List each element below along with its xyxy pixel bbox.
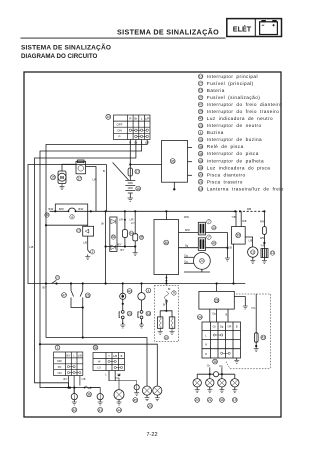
lamp 45 xyxy=(109,371,137,385)
wire block1 right xyxy=(206,231,228,233)
connector block 1 xyxy=(198,222,205,235)
lamp 20 label xyxy=(148,403,153,408)
legend item 36 Relé de pisca xyxy=(198,144,243,149)
flasher lamp 46 xyxy=(221,374,223,378)
connector ring on bus4 xyxy=(213,372,218,377)
comp 13 label xyxy=(270,251,274,255)
svg-text:Interruptor de buzina: Interruptor de buzina xyxy=(207,137,262,142)
neutral lamp label 40 xyxy=(127,289,132,294)
battery 16 xyxy=(125,181,135,194)
svg-text:36: 36 xyxy=(171,159,175,163)
svg-text:17: 17 xyxy=(77,177,81,181)
wire headlight feeds xyxy=(184,256,194,258)
svg-text:Pisca dianteiro: Pisca dianteiro xyxy=(207,172,246,177)
wire second run to rear xyxy=(40,344,157,386)
flasher lamp 21 xyxy=(209,374,211,378)
svg-text:Interruptor do freio traseiro: Interruptor do freio traseiro xyxy=(207,109,279,114)
svg-text:SISTEMA DE SINALIZAÇÃO: SISTEMA DE SINALIZAÇÃO xyxy=(117,27,219,36)
wire neutral lamp down xyxy=(122,299,124,310)
ground lamp 12 xyxy=(250,261,255,264)
svg-text:40: 40 xyxy=(212,226,216,230)
svg-text:23: 23 xyxy=(199,124,203,128)
ELET tab box xyxy=(227,19,282,37)
ground tail left xyxy=(158,328,163,334)
ground lamp 20b xyxy=(155,398,160,401)
svg-text:39: 39 xyxy=(236,234,240,238)
legend item 20 Pisca dianteiro xyxy=(198,172,245,177)
legend item 35 Luz indicadora do pisca xyxy=(198,165,270,170)
svg-text:Fusível (sinalização): Fusível (sinalização) xyxy=(207,95,260,100)
fuse sinalizacao right xyxy=(263,211,265,226)
turn indicator label 35 xyxy=(111,235,115,239)
ground tail right xyxy=(170,328,175,334)
svg-text:43: 43 xyxy=(199,159,203,163)
svg-text:R/B: R/B xyxy=(247,208,252,211)
svg-text:21: 21 xyxy=(208,398,212,402)
wire under headlight xyxy=(184,271,210,273)
ground lamp 42 xyxy=(72,402,77,405)
wire motor to relay xyxy=(62,164,76,171)
svg-text:40: 40 xyxy=(128,289,132,293)
svg-text:23: 23 xyxy=(77,229,81,233)
svg-text:10: 10 xyxy=(106,115,110,119)
switch 36 on bus3 xyxy=(85,386,91,389)
TABLES xyxy=(45,345,125,396)
legend item 19 Lanterna traseira/luz de freio xyxy=(198,186,284,191)
horn label 4 xyxy=(70,215,74,219)
lamp 42 xyxy=(73,388,75,394)
node row y246.5 xyxy=(106,246,136,248)
flasher lamp 19 xyxy=(234,374,236,378)
wires below dimmer table xyxy=(108,371,110,382)
dimmer switch table xyxy=(93,353,125,371)
connector block 1 label xyxy=(207,220,211,224)
starter motor M xyxy=(58,171,66,184)
ground lamp 45 xyxy=(134,393,139,396)
horn lamp label 4 xyxy=(146,288,151,293)
BOTTOMLAMPS xyxy=(71,371,162,413)
main switch column headers xyxy=(117,116,151,138)
svg-text:13: 13 xyxy=(271,251,275,255)
switch 36 label xyxy=(87,392,92,397)
svg-text:27: 27 xyxy=(56,276,60,280)
svg-text:Interruptor de palheta: Interruptor de palheta xyxy=(207,158,264,163)
svg-text:R/W: R/W xyxy=(260,221,266,224)
ground lamp 41 xyxy=(98,402,103,405)
battery icon in tab xyxy=(260,20,278,35)
svg-text:23: 23 xyxy=(128,312,132,316)
fuse 27 main fuse xyxy=(128,168,132,176)
wire tail junction xyxy=(165,300,167,311)
svg-text:Luz indicadora do pisca: Luz indicadora do pisca xyxy=(207,165,271,170)
wire relay to L/R drop xyxy=(86,167,97,212)
lamp 44 headlight low xyxy=(115,371,119,390)
node indicator bottom xyxy=(105,245,107,247)
svg-text:L/B: L/B xyxy=(30,245,34,249)
svg-text:Y/G: Y/G xyxy=(251,307,255,310)
svg-text:36: 36 xyxy=(199,145,203,149)
svg-text:7-22: 7-22 xyxy=(146,432,157,438)
svg-text:Fusível (principal): Fusível (principal) xyxy=(207,81,254,86)
ground neutral branch xyxy=(85,257,90,260)
svg-text:B/W: B/W xyxy=(49,208,54,211)
svg-text:41: 41 xyxy=(98,408,102,412)
wire dashed stub to table xyxy=(226,362,230,369)
ground right of headlight xyxy=(225,258,230,261)
svg-text:42: 42 xyxy=(72,408,76,412)
light switch table xyxy=(54,352,83,376)
wire R junction to unit box xyxy=(130,164,161,166)
wire dashed bus segment xyxy=(235,210,264,212)
main switch table grid xyxy=(114,115,151,140)
svg-text:Interruptor de neutro: Interruptor de neutro xyxy=(207,123,262,128)
front brake switch 47 xyxy=(70,284,72,291)
svg-text:40: 40 xyxy=(212,241,216,245)
node bus dots xyxy=(54,210,265,212)
svg-text:12: 12 xyxy=(251,250,255,254)
svg-text:L/Y: L/Y xyxy=(131,222,135,225)
main switch 10 label xyxy=(106,114,111,119)
light switch contacts xyxy=(67,366,81,374)
starter motor label xyxy=(51,175,56,180)
lamp 20 right front flasher xyxy=(153,386,162,395)
svg-text:33: 33 xyxy=(147,312,151,316)
svg-text:44: 44 xyxy=(117,408,121,412)
legend item 34 Interruptor do pisca xyxy=(198,151,258,156)
pilot device 35b xyxy=(134,211,136,234)
legend item 23 Interruptor de neutro xyxy=(198,123,261,128)
svg-text:B/Y: B/Y xyxy=(121,249,125,252)
svg-text:B/Y: B/Y xyxy=(66,354,70,357)
wire Br branch down xyxy=(105,211,107,283)
tail switch label xyxy=(172,291,176,295)
diode up xyxy=(111,219,116,224)
wire color labels under table xyxy=(129,141,149,145)
svg-text:Br: Br xyxy=(134,116,137,120)
wires unit 28 to table xyxy=(209,309,211,322)
svg-text:Luz indicadora de neutro: Luz indicadora de neutro xyxy=(207,116,273,121)
svg-text:2: 2 xyxy=(92,250,94,254)
svg-text:27: 27 xyxy=(135,170,139,174)
svg-text:SISTEMA DE SINALIZAÇÃO: SISTEMA DE SINALIZAÇÃO xyxy=(21,43,111,52)
dimmer contacts xyxy=(108,360,123,368)
switch 2 contact xyxy=(87,249,89,251)
flasher unit 34 xyxy=(124,211,126,229)
svg-text:19: 19 xyxy=(199,187,203,191)
wire comp 13 ground xyxy=(263,258,265,261)
svg-text:L/R: L/R xyxy=(93,178,97,182)
svg-text:ELÉT: ELÉT xyxy=(233,24,252,33)
front brake switch label xyxy=(62,293,67,298)
unit box B relay xyxy=(154,220,179,275)
turn switch 34 label xyxy=(197,315,202,320)
main switch P row contacts xyxy=(135,135,149,137)
svg-text:4: 4 xyxy=(147,289,149,293)
svg-text:Buzina: Buzina xyxy=(207,130,224,135)
starter relay 17 xyxy=(76,161,86,174)
wire B to far left bend xyxy=(28,165,107,284)
horn feed lamp xyxy=(141,284,143,293)
svg-text:47: 47 xyxy=(62,293,66,297)
svg-text:4: 4 xyxy=(200,131,202,135)
wire box 39 top feeds xyxy=(235,211,237,226)
POWER xyxy=(51,141,192,212)
svg-text:B: B xyxy=(103,169,105,173)
fuse 27 label xyxy=(135,169,140,174)
svg-text:ON: ON xyxy=(58,372,62,375)
wire box 39 bottom to bus2 xyxy=(233,244,235,283)
turn switch unit 28 xyxy=(199,291,234,309)
svg-text:27: 27 xyxy=(199,82,203,86)
connector label bus start xyxy=(45,213,49,217)
switch 2 label xyxy=(90,250,94,254)
PAGENUM xyxy=(146,432,157,438)
svg-text:L/B: L/B xyxy=(113,354,117,358)
svg-text:35: 35 xyxy=(140,236,144,240)
svg-text:33: 33 xyxy=(199,138,203,142)
fuse 43 xyxy=(254,333,258,342)
unit box A label xyxy=(170,159,175,164)
svg-text:L/B: L/B xyxy=(83,242,87,245)
LEGEND xyxy=(198,74,284,191)
svg-text:Br: Br xyxy=(168,288,171,291)
tail filament left xyxy=(157,317,163,328)
svg-text:Interruptor do freio dianteiro: Interruptor do freio dianteiro xyxy=(207,102,282,107)
svg-text:OFF: OFF xyxy=(117,122,123,126)
wire B vertical xyxy=(106,165,108,212)
svg-text:M: M xyxy=(60,175,64,180)
horn 4 xyxy=(69,208,76,211)
turn signal switch table 38 xyxy=(202,322,241,358)
wire bus4 xyxy=(197,373,213,375)
svg-text:15: 15 xyxy=(51,176,55,180)
svg-text:10: 10 xyxy=(199,75,203,79)
svg-text:B/W: B/W xyxy=(185,229,190,232)
INDICATORS xyxy=(102,211,144,283)
SWITCHTABLE xyxy=(106,114,151,144)
svg-text:35: 35 xyxy=(112,235,116,239)
unit box A xyxy=(162,141,188,183)
wire neutral box down xyxy=(87,236,89,248)
legend item 21 Pisca traseiro xyxy=(198,179,243,184)
rear brake switch label xyxy=(85,293,90,298)
meter lamp 12 xyxy=(248,247,258,257)
turn switch unit label xyxy=(214,298,219,303)
lamp 44 label xyxy=(117,408,122,413)
svg-text:20: 20 xyxy=(199,173,203,177)
svg-text:21: 21 xyxy=(199,180,203,184)
svg-text:B/W: B/W xyxy=(59,208,64,211)
fuse 43 label xyxy=(261,335,266,340)
svg-text:Interruptor principal: Interruptor principal xyxy=(207,74,258,79)
wire horn lamp down xyxy=(141,300,143,311)
lamp 41 label xyxy=(98,407,103,412)
wire R column down xyxy=(129,140,131,169)
svg-text:34: 34 xyxy=(199,152,203,156)
svg-text:B/W: B/W xyxy=(79,208,84,211)
svg-text:LO: LO xyxy=(97,366,100,370)
wire table col B to ground xyxy=(236,358,238,360)
legend item 37 Fusível (sinalização) xyxy=(198,95,260,100)
svg-text:B/Y: B/Y xyxy=(118,244,122,247)
horn switch 33 xyxy=(140,311,143,314)
LEFTWIRES xyxy=(28,140,162,388)
svg-text:7: 7 xyxy=(208,220,210,224)
svg-text:B/Y: B/Y xyxy=(63,378,67,381)
ground battery xyxy=(128,198,134,201)
svg-text:24: 24 xyxy=(200,259,204,263)
wire fuse 43 feed xyxy=(255,294,257,333)
ground neutral switch xyxy=(120,323,125,329)
svg-text:B: B xyxy=(121,354,123,358)
svg-text:Bateria: Bateria xyxy=(207,88,225,93)
svg-text:35: 35 xyxy=(199,166,203,170)
svg-text:28: 28 xyxy=(215,299,219,303)
wire L column to left bend xyxy=(40,140,142,388)
node bus2 dots xyxy=(45,282,218,284)
wire bus3 to lamp41 xyxy=(91,388,100,394)
svg-text:Y/R: Y/R xyxy=(261,245,265,248)
legend item 10 Interruptor principal xyxy=(198,74,258,79)
legend item 26 Interruptor do freio traseiro xyxy=(198,109,279,114)
wire box B pins right xyxy=(179,231,199,233)
svg-text:43: 43 xyxy=(261,336,265,340)
svg-text:DIAGRAMA DO CIRCUITO: DIAGRAMA DO CIRCUITO xyxy=(21,53,97,60)
wire main earth bus xyxy=(50,210,69,212)
svg-text:L/B: L/B xyxy=(228,247,232,250)
wire secondary bus xyxy=(46,283,246,285)
flasher lamp 20r xyxy=(196,374,198,378)
svg-text:7: 7 xyxy=(208,235,210,239)
wire brake join xyxy=(71,305,83,308)
svg-text:Y/R: Y/R xyxy=(227,326,231,329)
tail light label xyxy=(164,335,168,339)
turn table contacts xyxy=(213,334,230,355)
wire block2 right xyxy=(206,247,228,249)
svg-text:40: 40 xyxy=(199,117,203,121)
light switch table label 3 xyxy=(55,345,60,350)
legend item 27 Fusível (principal) xyxy=(198,81,253,86)
svg-text:L/B: L/B xyxy=(82,378,86,381)
connector 1 label 40 xyxy=(212,226,216,230)
svg-text:36: 36 xyxy=(87,393,91,397)
horn switch label xyxy=(146,311,151,316)
svg-text:Pisca traseiro: Pisca traseiro xyxy=(207,179,243,184)
legend item 47 Interruptor do freio dianteiro xyxy=(198,102,282,107)
wire fuse to battery xyxy=(129,176,131,181)
starter relay label xyxy=(77,176,82,181)
svg-text:Relé de pisca: Relé de pisca xyxy=(207,144,244,149)
wire dashed right vertical xyxy=(270,294,272,369)
svg-text:P: P xyxy=(118,135,120,139)
connector block 2 xyxy=(198,238,205,251)
ground pilot xyxy=(133,253,138,256)
wire box39 to lamp 12 xyxy=(245,237,252,247)
resistor comp 13 xyxy=(261,249,268,258)
pilot device label xyxy=(139,235,143,239)
lamp 41 xyxy=(97,394,103,400)
svg-text:20: 20 xyxy=(148,404,152,408)
wires into bus4 xyxy=(209,368,211,375)
svg-text:R: R xyxy=(205,353,207,356)
RIGHTMID xyxy=(154,211,275,284)
wires below light switch table xyxy=(67,376,69,388)
svg-text:47: 47 xyxy=(199,103,203,107)
diode down xyxy=(111,245,116,250)
lamp 20 left front flasher xyxy=(142,386,151,395)
node R junction xyxy=(129,163,131,165)
ground lamp 44 xyxy=(117,402,122,405)
tail brake light dashed box xyxy=(154,286,178,342)
TURNSIG xyxy=(193,284,271,403)
neutral diode box 23 xyxy=(83,226,94,236)
unit box A pin stubs xyxy=(188,147,193,149)
battery 16 label xyxy=(136,186,141,191)
svg-text:26: 26 xyxy=(86,294,90,298)
tail filament right xyxy=(169,317,175,328)
tail light switch curve xyxy=(164,292,168,300)
HEADER xyxy=(21,19,282,61)
flasher unit label 34 xyxy=(129,231,133,235)
svg-text:L/R: L/R xyxy=(145,116,151,120)
svg-text:OFF: OFF xyxy=(57,360,62,363)
svg-text:L/R: L/R xyxy=(119,218,123,221)
svg-text:R/W: R/W xyxy=(184,216,190,219)
svg-text:9: 9 xyxy=(173,291,175,295)
wire Br column to left bend xyxy=(35,140,136,388)
wire unit box A bottom lead xyxy=(173,182,175,188)
svg-text:R/W: R/W xyxy=(260,237,266,240)
wire diagonal to battery xyxy=(113,163,129,181)
header rule xyxy=(21,37,226,40)
svg-text:37: 37 xyxy=(199,96,203,100)
rear brake switch 26 xyxy=(82,284,84,291)
svg-text:L/B: L/B xyxy=(249,240,253,243)
svg-text:19: 19 xyxy=(165,336,169,340)
neutral switch 23 xyxy=(121,311,124,314)
ground starter motor xyxy=(60,184,65,190)
wire unit 28 right leads xyxy=(234,297,245,307)
svg-text:34: 34 xyxy=(198,315,202,319)
BUS1 xyxy=(45,204,266,260)
svg-text:19: 19 xyxy=(233,398,237,402)
svg-text:N: N xyxy=(205,344,207,347)
connector label bus2 start xyxy=(55,275,59,279)
main switch ON row contacts xyxy=(129,129,148,131)
svg-text:4: 4 xyxy=(71,215,73,219)
svg-text:HI: HI xyxy=(98,360,101,364)
svg-text:16: 16 xyxy=(199,89,203,93)
svg-text:Lanterna traseira/luz de freio: Lanterna traseira/luz de freio xyxy=(207,186,284,191)
svg-text:L/R: L/R xyxy=(130,218,134,221)
wire lamp 12 ground xyxy=(252,257,254,260)
wire fuse 43 down xyxy=(255,342,257,348)
wire box B top xyxy=(165,211,167,219)
dimmer table label 35 xyxy=(93,345,98,350)
wire battery to ground xyxy=(129,193,131,198)
legend item 43 Interruptor de palheta xyxy=(198,158,264,163)
turn table label 38 xyxy=(213,359,218,364)
wire flasher to node row xyxy=(124,237,126,246)
headlight lamp xyxy=(194,253,211,270)
svg-text:PO: PO xyxy=(58,366,62,369)
wire bus2 to switch unit 28 xyxy=(216,284,218,292)
legend item 4 Buzina xyxy=(198,130,224,135)
svg-text:Interruptor do pisca: Interruptor do pisca xyxy=(207,151,259,156)
wire left corner to neutral area xyxy=(46,224,88,226)
svg-text:36: 36 xyxy=(164,241,168,245)
svg-text:38: 38 xyxy=(213,360,217,364)
